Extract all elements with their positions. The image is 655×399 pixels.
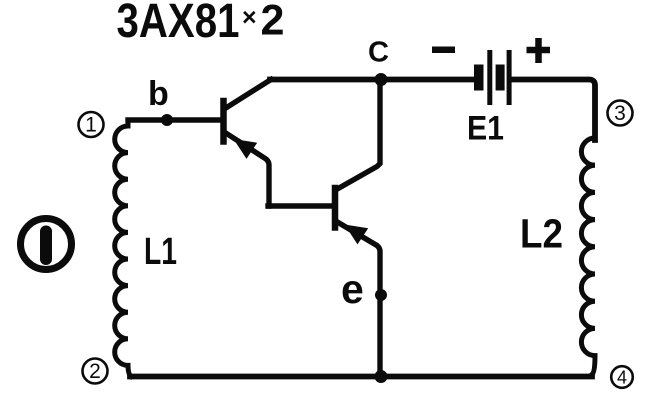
inductor L1: [115, 120, 131, 377]
terminal 1 circled: [79, 112, 104, 137]
transistor Q1 emitter lead: [225, 133, 269, 207]
svg-text:4: 4: [617, 368, 627, 388]
transistor Q2 emitter arrow (PNP): [345, 225, 369, 245]
svg-text:E1: E1: [467, 110, 504, 148]
wire: battery positive to top-right corner, down to L2: [511, 80, 595, 141]
figure marker: circled vertical bar: [21, 219, 72, 270]
battery plus sign: [527, 38, 551, 63]
transistor Q1 emitter arrow (PNP): [234, 139, 258, 159]
wire: Q1 emitter to Q2 base: [268, 203, 332, 208]
transistor Q1 collector lead: [225, 80, 271, 109]
battery E1 plate: short thick: [496, 65, 505, 91]
wire: top rail from Q1 collector to battery: [270, 77, 473, 83]
battery minus sign: [432, 47, 455, 54]
transistor Q2 collector lead: [337, 80, 381, 190]
svg-text:e: e: [341, 266, 364, 312]
svg-text:L2: L2: [520, 211, 563, 257]
terminal 4 circled: [611, 366, 633, 388]
node b junction dot: [161, 114, 173, 126]
transistor Q2 base bar: [332, 188, 339, 228]
svg-text:2: 2: [89, 360, 101, 383]
svg-text:2: 2: [261, 0, 285, 45]
transistor Q2 emitter lead: [337, 222, 381, 377]
battery E1 plate: long thin (right, positive): [507, 50, 512, 105]
node C junction dot: [375, 73, 388, 86]
svg-text:3AX81: 3AX81: [117, 0, 240, 48]
terminal 2 circled: [83, 359, 108, 384]
battery E1 plate: short thick (left, negative): [474, 65, 484, 91]
svg-text:L1: L1: [144, 231, 177, 273]
svg-text:×: ×: [242, 4, 257, 32]
svg-text:1: 1: [85, 114, 97, 137]
svg-text:b: b: [148, 75, 169, 113]
svg-text:C: C: [368, 37, 389, 69]
terminal 3 circled: [608, 101, 633, 126]
svg-text:3: 3: [614, 102, 626, 125]
wire: bottom rail: [130, 374, 592, 380]
inductor L2: [581, 138, 595, 375]
node e junction dot: [375, 289, 387, 301]
transistor Q1 base bar: [220, 101, 227, 142]
wire: base lead from node 1 corner to Q1: [128, 117, 221, 122]
battery E1 plate: long thin: [487, 50, 492, 105]
junction dot at emitter wire and bottom rail: [375, 370, 388, 383]
